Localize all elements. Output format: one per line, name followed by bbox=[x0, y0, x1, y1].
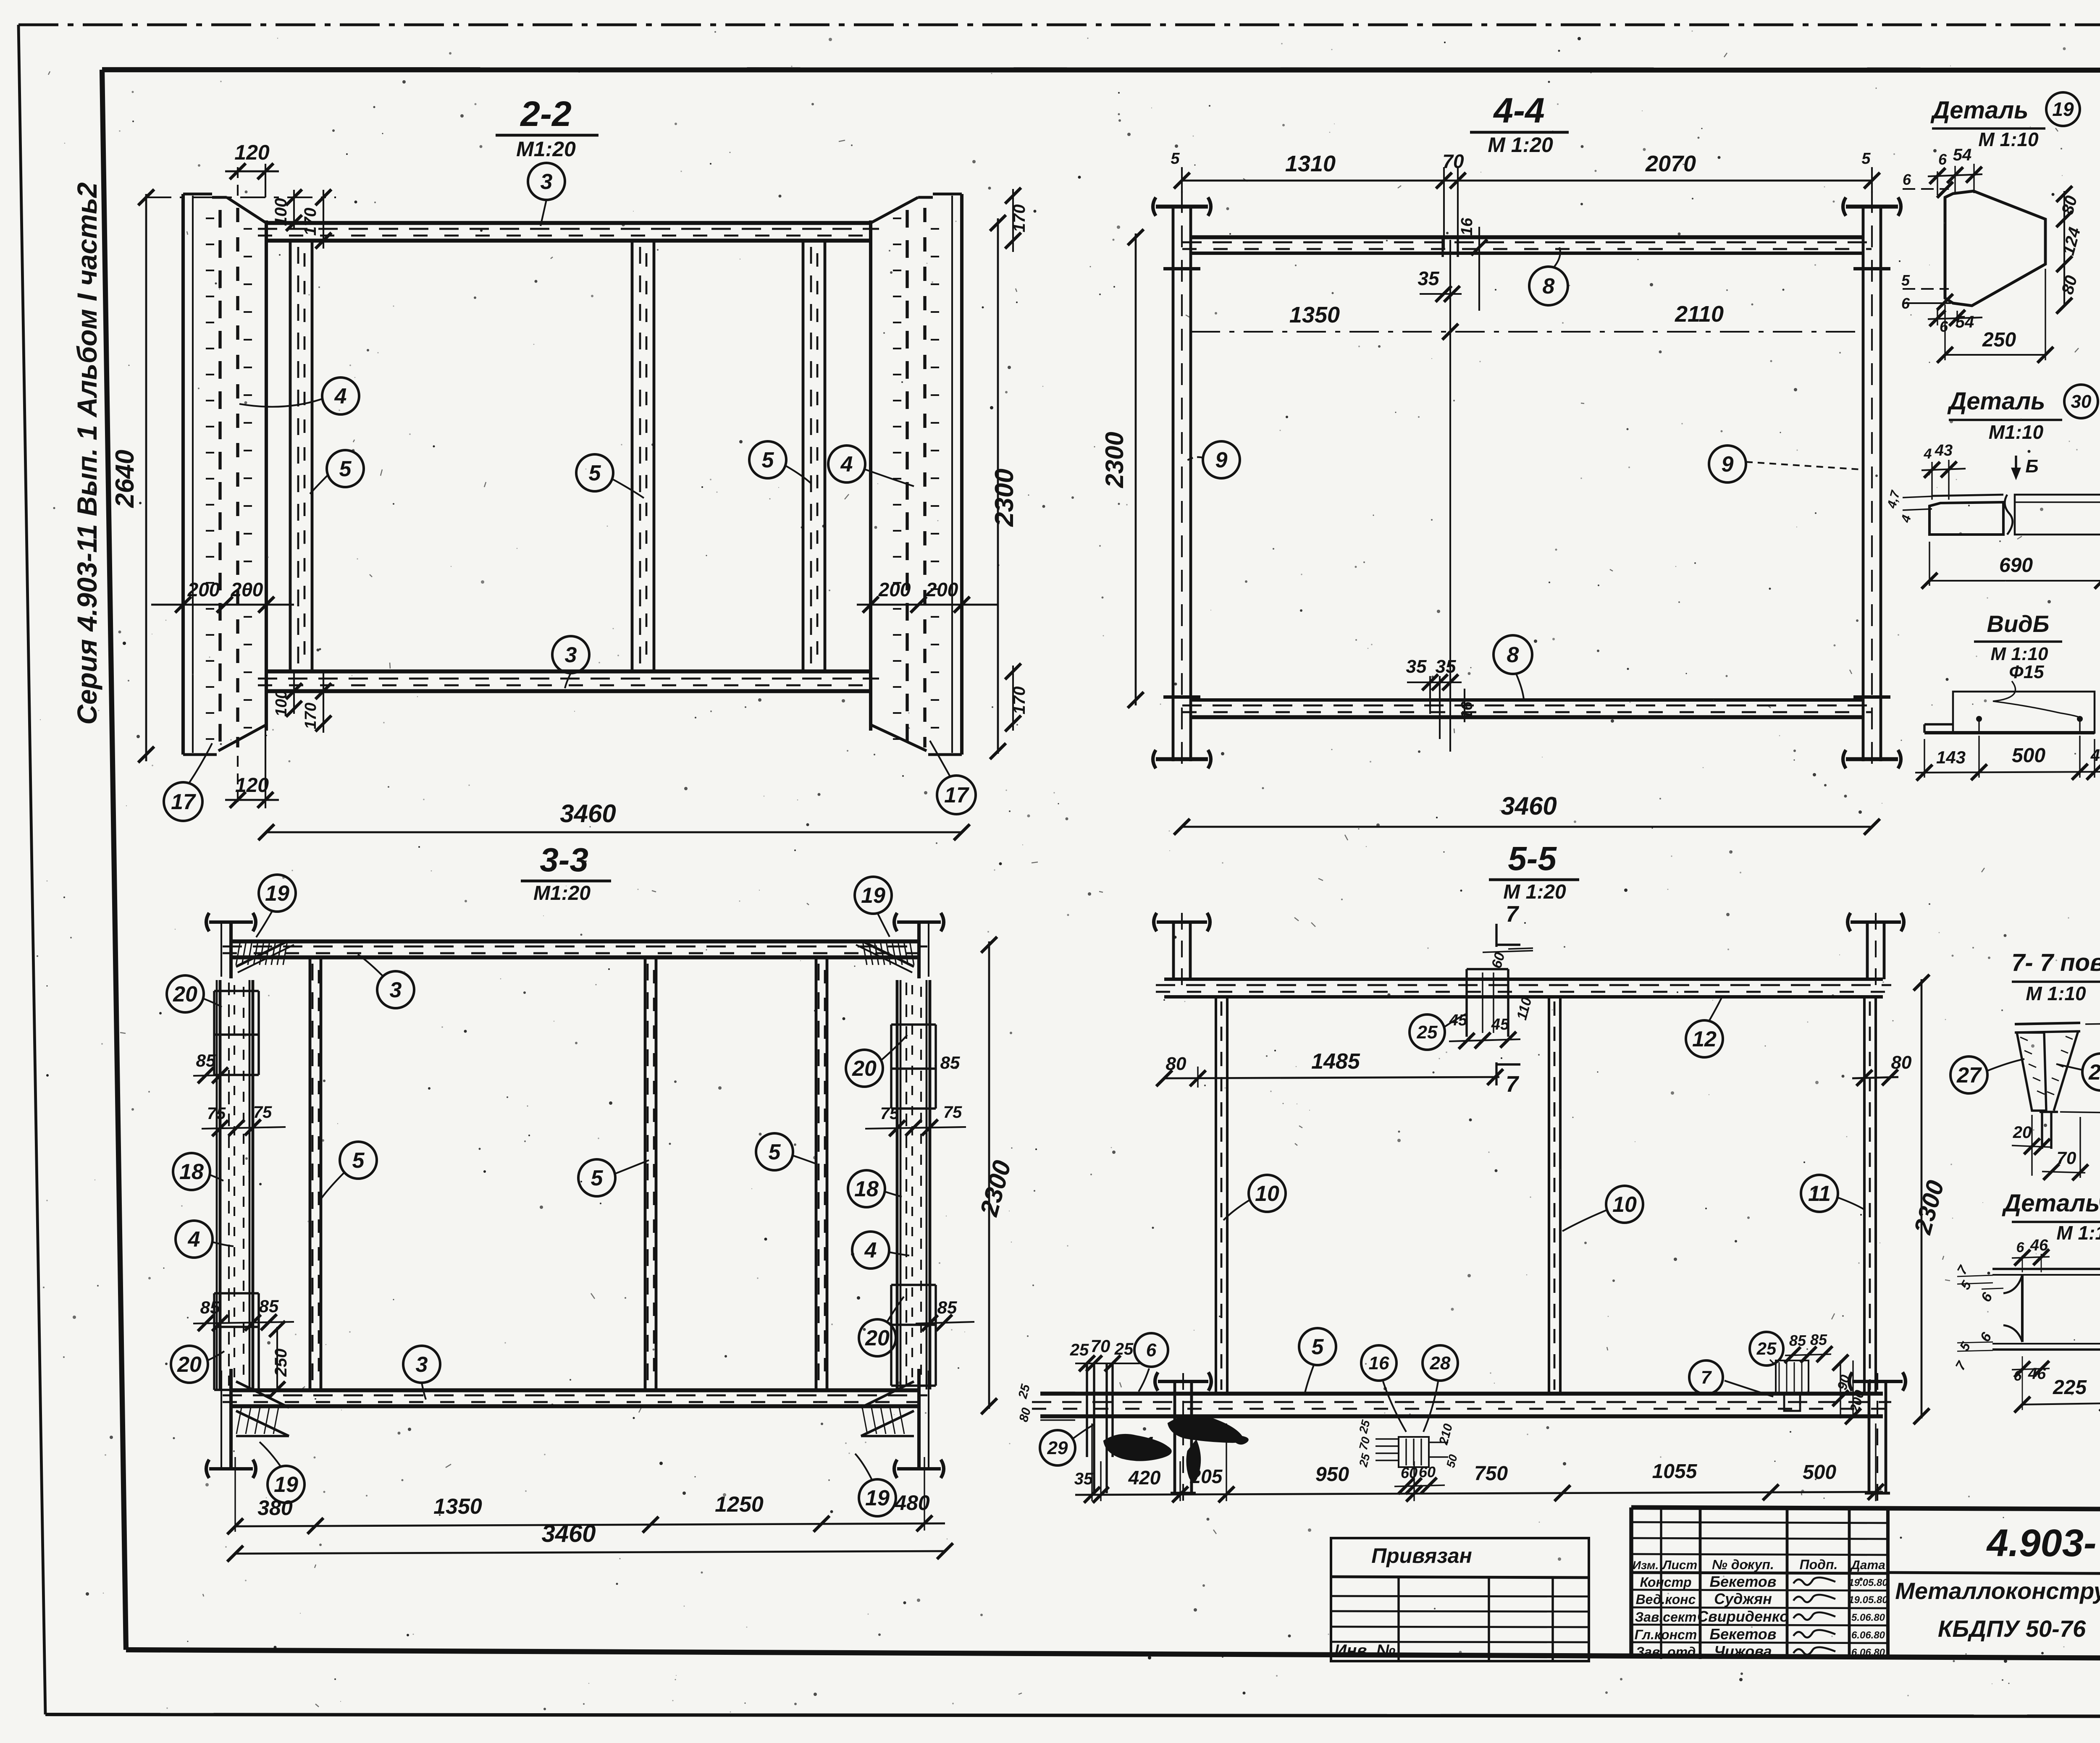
svg-text:5: 5 bbox=[339, 457, 352, 481]
svg-text:70: 70 bbox=[1091, 1336, 1110, 1356]
svg-text:20: 20 bbox=[177, 1352, 202, 1377]
4-4 bottom dimensions 35 35 16 bbox=[1406, 656, 1476, 752]
svg-text:3460: 3460 bbox=[541, 1520, 596, 1547]
svg-text:Вед.конс: Вед.конс bbox=[1636, 1592, 1696, 1607]
svg-text:Бекетов: Бекетов bbox=[1709, 1625, 1776, 1643]
5-5 section marker 7 top bbox=[1496, 902, 1520, 947]
svg-text:30: 30 bbox=[2071, 391, 2092, 412]
svg-text:М1:20: М1:20 bbox=[533, 882, 591, 904]
svg-text:29: 29 bbox=[1047, 1438, 1068, 1458]
5-5 dimension row 80/1485 with markers bbox=[1156, 999, 1503, 1088]
3-3 top beam (item 3) bbox=[223, 941, 927, 957]
svg-text:ВидБ: ВидБ bbox=[1987, 611, 2050, 637]
5-5 ink blot stains bbox=[1104, 1415, 1248, 1481]
svg-text:4: 4 bbox=[864, 1238, 877, 1263]
svg-text:Привязан: Привязан bbox=[1371, 1544, 1472, 1567]
title block signature table bbox=[1631, 1507, 1888, 1660]
svg-text:3: 3 bbox=[416, 1352, 428, 1377]
section title 4-4 bbox=[1470, 91, 1569, 157]
svg-text:Зав. отд: Зав. отд bbox=[1636, 1644, 1696, 1659]
svg-text:170: 170 bbox=[301, 208, 320, 236]
3-3 left end plate and gusset 19 bottom bbox=[206, 1369, 289, 1478]
title block document number 4.903-11-B.1-10 bbox=[1986, 1522, 2100, 1565]
svg-text:Серия 4.903-11 Вып. 1 Ал: Серия 4.903-11 Вып. 1 Альбом I часть2 bbox=[71, 182, 102, 725]
3-3 dimension 2300 right bbox=[974, 937, 1016, 1414]
svg-text:120: 120 bbox=[234, 141, 270, 164]
svg-text:75: 75 bbox=[207, 1104, 226, 1123]
svg-text:85: 85 bbox=[940, 1053, 960, 1072]
svg-text:18: 18 bbox=[179, 1160, 204, 1184]
svg-text:3-3: 3-3 bbox=[540, 841, 588, 878]
svg-text:143: 143 bbox=[1936, 747, 1966, 767]
svg-text:17: 17 bbox=[944, 783, 969, 807]
svg-text:25: 25 bbox=[1070, 1341, 1089, 1359]
2-2 mark 17 left with leader bbox=[164, 743, 212, 821]
3-3 mark 20 top-left bbox=[167, 975, 222, 1012]
svg-text:6: 6 bbox=[1938, 151, 1947, 168]
svg-text:1350: 1350 bbox=[433, 1494, 482, 1519]
4-4 top dimension row 1310/70/2070 bbox=[1171, 150, 1880, 249]
svg-text:10: 10 bbox=[1255, 1182, 1279, 1206]
svg-text:6.06.80: 6.06.80 bbox=[1851, 1630, 1885, 1641]
3-3 mark 5 #2 bbox=[578, 1159, 649, 1196]
5-5 corner rail bottom-right bbox=[1849, 1372, 1906, 1501]
svg-text:Подп.: Подп. bbox=[1800, 1557, 1838, 1572]
svg-text:75: 75 bbox=[253, 1103, 272, 1122]
svg-text:3460: 3460 bbox=[560, 799, 616, 828]
3-3 mark 20 bottom-right bbox=[859, 1297, 904, 1356]
svg-text:480: 480 bbox=[894, 1491, 930, 1515]
svg-text:26: 26 bbox=[2088, 1060, 2100, 1085]
svg-text:120: 120 bbox=[235, 774, 269, 797]
svg-text:Дата: Дата bbox=[1850, 1558, 1885, 1572]
2-2 dimension 2640 left bbox=[110, 189, 154, 763]
svg-text:6: 6 bbox=[2016, 1240, 2025, 1255]
2-2 intermediate column (item 5) #1 bbox=[290, 241, 312, 671]
2-2 right column assembly (items 4,5) bbox=[871, 194, 962, 755]
svg-text:7: 7 bbox=[1506, 902, 1520, 927]
7-7 rotated view title bbox=[2011, 949, 2100, 1004]
svg-text:17: 17 bbox=[171, 790, 196, 814]
view B title bbox=[1974, 611, 2062, 682]
3-3 mark 5 #1 bbox=[321, 1142, 377, 1198]
svg-text:170: 170 bbox=[1010, 687, 1029, 715]
svg-text:28: 28 bbox=[1430, 1353, 1451, 1373]
svg-text:Констр: Констр bbox=[1640, 1575, 1691, 1590]
5-5 middle column (item 10) bbox=[1549, 997, 1560, 1394]
svg-text:200: 200 bbox=[231, 579, 263, 600]
title block name cell bbox=[1888, 1573, 2100, 1659]
5-5 dimension 2300 right bbox=[1909, 975, 1949, 1424]
view B dimensions bbox=[1915, 712, 2100, 781]
3-3 mark 3 bottom bbox=[403, 1346, 440, 1400]
svg-text:Ф15: Ф15 bbox=[2009, 662, 2044, 682]
svg-text:200: 200 bbox=[878, 579, 911, 600]
5-5 mark 10 middle with leader bbox=[1562, 1186, 1643, 1231]
detail 7 dimensions bbox=[1952, 1237, 2100, 1413]
svg-text:7- 7 повернуто: 7- 7 повернуто bbox=[2011, 949, 2100, 976]
svg-text:3: 3 bbox=[390, 978, 402, 1002]
svg-text:91: 91 bbox=[1134, 1433, 1155, 1454]
svg-text:4.903- 11-В.1-10: 4.903- 11-В.1-10 bbox=[1986, 1522, 2100, 1565]
svg-text:19: 19 bbox=[274, 1473, 298, 1497]
svg-text:2640: 2640 bbox=[110, 450, 139, 508]
4-4 left column (item 9) bbox=[1153, 191, 1211, 775]
detail 30 dimensions bbox=[1885, 442, 2100, 589]
3-3 intermediate column (item 5) #3 bbox=[816, 957, 827, 1390]
svg-text:М1:10: М1:10 bbox=[1989, 421, 2044, 443]
svg-text:47: 47 bbox=[2090, 746, 2100, 765]
svg-text:85: 85 bbox=[937, 1297, 957, 1317]
5-5 bracket detail right (items 7,25) bbox=[1689, 1331, 1867, 1424]
svg-text:9: 9 bbox=[1215, 448, 1228, 472]
2-2 dimension 2300 right bbox=[990, 215, 1019, 759]
svg-text:2300: 2300 bbox=[990, 469, 1019, 527]
svg-text:25: 25 bbox=[1417, 1022, 1438, 1043]
3-3 mark 19 bottom-left bbox=[260, 1442, 304, 1503]
2-2 mark 4 left with leader bbox=[239, 377, 359, 414]
svg-text:20: 20 bbox=[852, 1056, 877, 1081]
svg-text:27: 27 bbox=[1956, 1063, 1982, 1088]
svg-text:43: 43 bbox=[1935, 442, 1953, 459]
svg-text:750: 750 bbox=[1474, 1463, 1508, 1485]
2-2 intermediate column (item 5) #2 bbox=[632, 241, 654, 671]
svg-text:20: 20 bbox=[2013, 1123, 2032, 1142]
svg-text:19: 19 bbox=[865, 1486, 890, 1510]
svg-text:200: 200 bbox=[926, 579, 958, 600]
3-3 right small dimensions 85 75 75 85 bbox=[865, 1053, 974, 1331]
svg-text:4: 4 bbox=[334, 384, 347, 409]
svg-text:75: 75 bbox=[880, 1104, 899, 1123]
svg-text:500: 500 bbox=[1803, 1461, 1836, 1484]
svg-text:Деталь: Деталь bbox=[1947, 388, 2045, 415]
4-4 right column (item 9) bbox=[1843, 191, 1901, 775]
svg-text:6.06.80: 6.06.80 bbox=[1851, 1647, 1885, 1658]
3-3 mark 18 left bbox=[173, 1153, 223, 1190]
5-5 bottom dimension row bbox=[1074, 1423, 1884, 1503]
svg-text:3: 3 bbox=[541, 170, 553, 194]
4-4 middle dimension row 1350/2110 bbox=[1191, 301, 1863, 340]
svg-text:5: 5 bbox=[1171, 150, 1180, 168]
5-5 right wall column (item 11) bbox=[1864, 997, 1876, 1394]
svg-text:Изм.: Изм. bbox=[1633, 1559, 1659, 1572]
svg-text:25: 25 bbox=[1756, 1339, 1777, 1358]
2-2 left column assembly (items 4,5) bbox=[183, 194, 266, 755]
svg-text:4: 4 bbox=[840, 452, 853, 477]
3-3 bottom dimension row 380/1350/1250/480 bbox=[227, 1398, 945, 1534]
3-3 mark 19 bottom-right bbox=[855, 1454, 896, 1516]
2-2 dimension 170 right top bbox=[1005, 188, 1029, 252]
svg-text:Б: Б bbox=[2025, 456, 2038, 477]
svg-text:18: 18 bbox=[854, 1177, 879, 1201]
2-2 dimension 3460 bottom bbox=[258, 735, 970, 840]
3-3 mark 19 top-left bbox=[256, 875, 296, 937]
3-3 mark 20 bottom-left bbox=[171, 1346, 224, 1383]
detail 30 title bbox=[1947, 385, 2098, 443]
svg-text:11: 11 bbox=[1808, 1182, 1831, 1206]
7-7 mark 26 with leader bbox=[2056, 1054, 2100, 1090]
svg-text:35: 35 bbox=[1074, 1470, 1093, 1488]
5-5 dimension 80 right bbox=[1852, 1052, 1912, 1086]
2-2 mark 5 left with leader bbox=[310, 450, 364, 494]
4-4 dimension 3460 bottom bbox=[1174, 792, 1880, 835]
svg-text:М1:20: М1:20 bbox=[516, 137, 576, 161]
svg-text:8: 8 bbox=[1543, 274, 1555, 299]
svg-text:№ докуп.: № докуп. bbox=[1712, 1557, 1774, 1572]
2-2 mark 5 right with leader bbox=[749, 441, 811, 484]
svg-text:М 1:20: М 1:20 bbox=[1503, 881, 1566, 903]
svg-text:19: 19 bbox=[861, 883, 885, 908]
detail 7 drawing bbox=[1992, 1269, 2100, 1350]
svg-text:М 1:10: М 1:10 bbox=[2026, 983, 2086, 1004]
svg-text:1310: 1310 bbox=[1285, 151, 1336, 176]
svg-text:Свириденко: Свириденко bbox=[1697, 1608, 1789, 1625]
4-4 dimension 2300 left bbox=[1100, 229, 1144, 708]
5-5 section marker 7 bottom bbox=[1496, 1062, 1520, 1097]
3-3 left small dimensions 85 75 75 85 85 250 bbox=[193, 1051, 294, 1397]
svg-text:5: 5 bbox=[762, 448, 774, 472]
2-2 intermediate column (item 5) #3 bbox=[803, 241, 825, 671]
svg-text:3: 3 bbox=[565, 643, 577, 667]
3-3 bottom beam (item 3) bbox=[223, 1390, 927, 1406]
2-2 dimension 170 right bottom bbox=[1005, 663, 1029, 731]
svg-text:Металлоконструкция: Металлоконструкция bbox=[1895, 1578, 2100, 1604]
5-5 corner rail top-left bbox=[1154, 913, 1210, 987]
svg-text:5: 5 bbox=[352, 1148, 365, 1173]
4-4 mark 9 left with leader bbox=[1186, 441, 1240, 478]
3-3 intermediate column (item 5) #2 bbox=[645, 957, 656, 1390]
svg-text:500: 500 bbox=[2012, 744, 2045, 767]
7-7 dimensions 20/200/20/70 bbox=[2012, 1002, 2100, 1180]
5-5 top plate detail with 25 bbox=[1410, 948, 1535, 1050]
detail 19 title bbox=[1930, 92, 2080, 150]
svg-text:6: 6 bbox=[1903, 171, 1911, 188]
svg-text:КБДПУ 50-76: КБДПУ 50-76 bbox=[1938, 1615, 2086, 1642]
svg-text:85: 85 bbox=[200, 1297, 220, 1317]
svg-text:М 1:10: М 1:10 bbox=[1978, 128, 2039, 150]
3-3 mark 5 #3 bbox=[756, 1133, 816, 1170]
3-3 right end plate and gusset 19 top bbox=[856, 913, 944, 978]
svg-text:Деталь: Деталь bbox=[2001, 1190, 2100, 1217]
svg-text:7: 7 bbox=[1701, 1367, 1712, 1388]
svg-text:35: 35 bbox=[1417, 267, 1440, 289]
view B plate bbox=[1924, 681, 2095, 733]
svg-text:80: 80 bbox=[1166, 1054, 1186, 1074]
svg-text:М 1:10: М 1:10 bbox=[1991, 644, 2048, 664]
svg-text:20: 20 bbox=[865, 1326, 890, 1350]
4-4 top beam (item 8) bbox=[1182, 237, 1872, 253]
svg-text:2-2: 2-2 bbox=[520, 94, 571, 134]
svg-text:6: 6 bbox=[1146, 1340, 1157, 1360]
svg-text:75: 75 bbox=[943, 1103, 962, 1122]
svg-text:М 1:20: М 1:20 bbox=[1488, 133, 1553, 157]
svg-text:170: 170 bbox=[1010, 204, 1029, 233]
3-3 mark 4 right bbox=[852, 1232, 909, 1269]
svg-text:12: 12 bbox=[1692, 1027, 1717, 1051]
svg-text:80: 80 bbox=[1891, 1052, 1912, 1073]
svg-text:35: 35 bbox=[1406, 656, 1427, 677]
detail 19 dimensions bbox=[1901, 146, 2084, 363]
svg-text:54: 54 bbox=[1956, 313, 1974, 331]
7-7 mark 27 with leader bbox=[1950, 1056, 2024, 1093]
svg-text:250: 250 bbox=[1982, 329, 2016, 351]
svg-text:200: 200 bbox=[187, 579, 220, 600]
svg-text:4: 4 bbox=[1924, 446, 1932, 462]
svg-text:Деталь: Деталь bbox=[1930, 97, 2028, 124]
5-5 corner rail bottom-left bbox=[1155, 1372, 1211, 1501]
svg-text:5.06.80: 5.06.80 bbox=[1851, 1612, 1885, 1623]
privyazan table bbox=[1331, 1538, 1589, 1661]
3-3 left wall column (items 20,18,4) bbox=[214, 980, 259, 1390]
section title 3-3 bbox=[521, 841, 611, 904]
svg-text:45: 45 bbox=[1449, 1012, 1467, 1029]
svg-text:5: 5 bbox=[1901, 272, 1910, 289]
3-3 mark 3 top bbox=[358, 954, 414, 1008]
svg-text:Бекетов: Бекетов bbox=[1709, 1573, 1776, 1590]
svg-text:5: 5 bbox=[1861, 150, 1871, 168]
3-3 right end plate and gusset 19 bottom bbox=[861, 1369, 944, 1478]
svg-text:7: 7 bbox=[1506, 1072, 1520, 1097]
svg-text:420: 420 bbox=[1128, 1467, 1161, 1489]
svg-text:Чижова: Чижова bbox=[1714, 1643, 1772, 1660]
svg-text:5: 5 bbox=[591, 1166, 604, 1190]
5-5 bottom beam bbox=[1032, 1394, 1891, 1416]
svg-text:690: 690 bbox=[1999, 554, 2033, 577]
3-3 mark 4 left bbox=[176, 1221, 234, 1258]
2-2 mark 5 middle with leader bbox=[576, 454, 644, 498]
detail 30 view arrow B bbox=[2012, 456, 2039, 479]
svg-text:45: 45 bbox=[1491, 1016, 1509, 1033]
svg-text:250: 250 bbox=[272, 1349, 290, 1377]
svg-text:1055: 1055 bbox=[1652, 1460, 1698, 1483]
svg-text:2300: 2300 bbox=[1100, 432, 1129, 488]
svg-text:9: 9 bbox=[1722, 452, 1734, 477]
5-5 wall column left (item 10) bbox=[1216, 997, 1227, 1394]
3-3 intermediate column (item 5) #1 bbox=[310, 957, 321, 1390]
5-5 mark 11 with leader bbox=[1801, 1175, 1864, 1212]
svg-text:2110: 2110 bbox=[1675, 301, 1724, 327]
2-2 dimension 100/170 top bbox=[272, 189, 331, 249]
5-5 bottom centre bracket (items 16,28) bbox=[1357, 1345, 1460, 1494]
2-2 dimension 100/170 bottom bbox=[273, 671, 331, 733]
2-2 mark 3 bottom with leader bbox=[552, 636, 589, 688]
4-4 bottom beam (item 8) bbox=[1182, 700, 1872, 717]
svg-text:8: 8 bbox=[1507, 643, 1519, 667]
svg-text:16: 16 bbox=[1458, 701, 1476, 719]
detail 7 title bbox=[2001, 1185, 2100, 1244]
svg-text:20: 20 bbox=[173, 982, 197, 1006]
svg-text:5: 5 bbox=[1312, 1335, 1324, 1359]
svg-text:54: 54 bbox=[1953, 146, 1972, 164]
svg-text:1485: 1485 bbox=[1311, 1049, 1360, 1074]
section title 5-5 bbox=[1489, 840, 1579, 903]
title block main frame bbox=[1631, 1507, 2100, 1658]
svg-text:19.05.80: 19.05.80 bbox=[1848, 1577, 1888, 1588]
svg-text:6: 6 bbox=[1901, 295, 1910, 312]
3-3 right wall column (items 20,18,4) bbox=[891, 980, 936, 1389]
5-5 mark 5 bottom with leader bbox=[1299, 1328, 1336, 1394]
svg-text:35: 35 bbox=[1436, 656, 1456, 677]
svg-text:60: 60 bbox=[1401, 1464, 1417, 1481]
svg-text:205: 205 bbox=[1190, 1465, 1223, 1487]
2-2 top beam (item 3) bbox=[258, 223, 879, 241]
svg-text:85: 85 bbox=[259, 1296, 279, 1316]
svg-text:100: 100 bbox=[273, 690, 290, 716]
svg-text:Гл.конст: Гл.конст bbox=[1635, 1627, 1697, 1642]
svg-text:Инв. №: Инв. № bbox=[1334, 1641, 1395, 1660]
2-2 mark 3 top with leader bbox=[528, 163, 565, 226]
svg-text:3460: 3460 bbox=[1501, 792, 1557, 820]
2-2 mark 4 right with leader bbox=[828, 446, 914, 486]
4-4 mark 8 top with leader bbox=[1529, 247, 1568, 305]
5-5 top beam (item 12) bbox=[1156, 979, 1891, 997]
5-5 mark 12 with leader bbox=[1686, 997, 1723, 1057]
2-2 top extension line bbox=[146, 197, 336, 198]
svg-text:4: 4 bbox=[188, 1227, 200, 1252]
svg-text:6: 6 bbox=[1940, 318, 1948, 335]
svg-text:19: 19 bbox=[2052, 98, 2074, 120]
svg-text:2070: 2070 bbox=[1645, 151, 1696, 176]
svg-text:70: 70 bbox=[1442, 150, 1464, 172]
3-3 mark 19 top-right bbox=[855, 877, 892, 937]
section title 2-2 bbox=[496, 94, 598, 161]
2-2 dimension 120 bottom bbox=[225, 731, 279, 808]
5-5 left end bracket with marks 6 and 29 bbox=[1016, 1333, 1168, 1493]
svg-text:16: 16 bbox=[1458, 218, 1476, 236]
svg-text:19: 19 bbox=[265, 881, 289, 906]
svg-text:5-5: 5-5 bbox=[1508, 840, 1557, 877]
7-7 gusset section drawing (items 27,26) bbox=[2015, 1023, 2080, 1149]
svg-text:1350: 1350 bbox=[1289, 302, 1340, 328]
2-2 bottom beam (item 3) bbox=[258, 671, 879, 691]
4-4 mark 8 bottom with leader bbox=[1494, 635, 1532, 699]
svg-text:Зав.сект: Зав.сект bbox=[1635, 1609, 1697, 1625]
detail 19 plate outline bbox=[1945, 191, 2045, 306]
2-2 dimensions 200 200 left bbox=[151, 579, 294, 613]
svg-text:5: 5 bbox=[769, 1140, 781, 1164]
svg-text:225: 225 bbox=[2053, 1376, 2087, 1399]
4-4 mark 9 right with leader bbox=[1709, 446, 1861, 482]
3-3 mark 18 right bbox=[848, 1170, 902, 1207]
svg-text:170: 170 bbox=[302, 702, 320, 729]
2-2 dimension 120 top bbox=[225, 141, 279, 197]
3-3 dimension 3460 bottom bbox=[227, 1520, 953, 1562]
4-4 dimension 35 and 16 top bbox=[1417, 218, 1487, 311]
svg-text:85: 85 bbox=[1810, 1331, 1827, 1348]
3-3 mark 20 top-right bbox=[846, 1035, 907, 1087]
2-2 mark 17 right with leader bbox=[930, 741, 976, 814]
5-5 corner rail top-right bbox=[1848, 913, 1904, 987]
svg-text:85: 85 bbox=[1789, 1332, 1806, 1349]
detail 30 plate with break bbox=[1929, 495, 2100, 535]
svg-text:950: 950 bbox=[1315, 1463, 1349, 1486]
svg-text:16: 16 bbox=[1369, 1353, 1389, 1373]
2-2 dimensions 200 200 right bbox=[857, 579, 998, 613]
svg-text:Суджян: Суджян bbox=[1714, 1590, 1772, 1607]
svg-text:100: 100 bbox=[272, 198, 290, 226]
svg-text:19.05.80: 19.05.80 bbox=[1848, 1594, 1888, 1606]
svg-text:10: 10 bbox=[1612, 1193, 1637, 1217]
svg-text:4-4: 4-4 bbox=[1493, 91, 1544, 130]
3-3 left end plate and gusset 19 top bbox=[206, 913, 294, 978]
svg-text:Лист: Лист bbox=[1662, 1558, 1697, 1572]
svg-text:25: 25 bbox=[1114, 1340, 1134, 1358]
svg-text:5: 5 bbox=[589, 461, 601, 485]
svg-text:1250: 1250 bbox=[715, 1492, 764, 1517]
5-5 mark 10 left with leader bbox=[1223, 1175, 1286, 1220]
svg-text:М 1:10: М 1:10 bbox=[2056, 1222, 2100, 1244]
4-4 centre splice line bbox=[1443, 237, 1458, 700]
